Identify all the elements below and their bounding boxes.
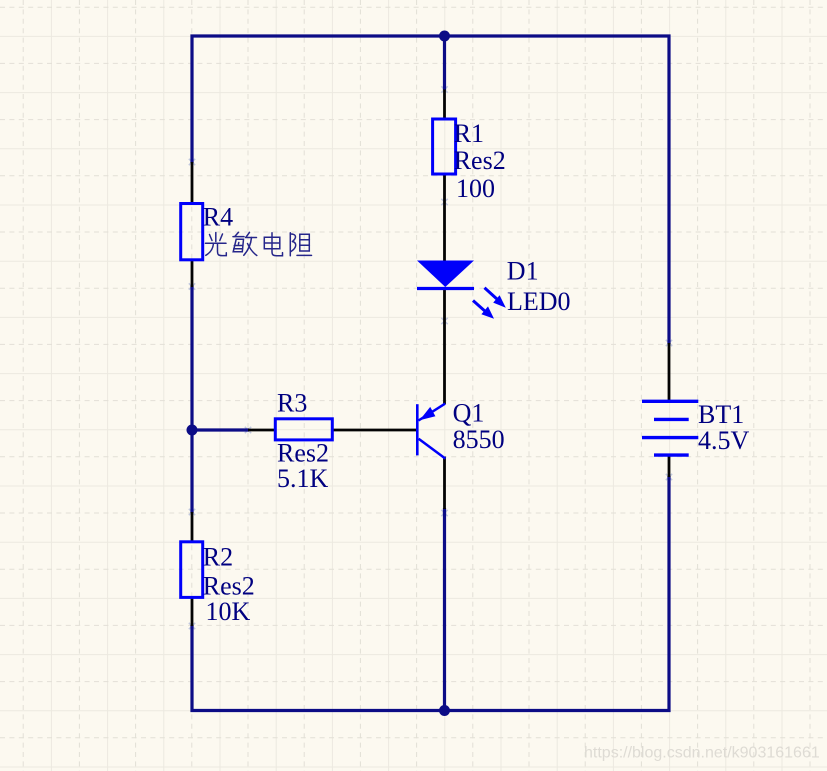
svg-text:R3: R3 <box>277 389 307 418</box>
pin R1.1 <box>443 90 446 121</box>
wire <box>192 428 249 431</box>
node: bottom junction <box>439 705 450 716</box>
pin end marker <box>189 509 195 515</box>
node: base divider junction <box>187 425 198 436</box>
pin end marker <box>441 510 447 516</box>
pin BT1.2 <box>668 455 671 478</box>
pin end marker <box>441 318 447 324</box>
diode D1 cathode bar <box>417 287 474 290</box>
wire <box>192 36 669 344</box>
svg-text:D1: D1 <box>507 257 539 286</box>
wire <box>190 286 193 514</box>
svg-text:BT1: BT1 <box>698 400 744 429</box>
resistor R4 body (photoresistor) <box>181 204 203 260</box>
svg-text:R4: R4 <box>203 203 233 232</box>
wire <box>443 508 446 711</box>
pin end marker <box>441 199 447 205</box>
transistor Q1 collector <box>419 439 446 459</box>
LED emission arrow 2 <box>473 301 494 319</box>
pin end marker <box>189 623 195 629</box>
wire <box>192 476 669 711</box>
pin R3.1 <box>248 429 276 432</box>
pin end marker <box>189 283 195 289</box>
resistor R2 body <box>181 542 203 598</box>
battery BT1 plate short 1 <box>654 418 689 421</box>
svg-text:10K: 10K <box>206 597 251 626</box>
pin R4.1 <box>191 162 194 205</box>
pin R1.2 / D1 anode pin <box>443 174 446 263</box>
pin R4.2 <box>191 259 194 287</box>
pin Q1 collector <box>443 457 446 510</box>
node: top junction <box>439 31 450 42</box>
wire <box>443 34 446 90</box>
transistor Q1 emitter with arrow <box>419 404 446 421</box>
svg-text:LED0: LED0 <box>507 287 571 316</box>
pin end marker <box>666 340 672 346</box>
pin end marker <box>245 427 251 433</box>
svg-text:8550: 8550 <box>453 425 505 454</box>
pin R2.2 <box>191 597 194 627</box>
svg-text:5.1K: 5.1K <box>277 464 329 493</box>
pin R3.2 / Q1 base pin <box>332 429 417 432</box>
svg-text:Res2: Res2 <box>454 146 506 175</box>
battery BT1 plate short 2 <box>654 453 689 456</box>
battery BT1 plate long 2 <box>642 436 698 439</box>
LED emission arrow 1 <box>485 288 506 308</box>
svg-text:R2: R2 <box>203 543 233 572</box>
battery BT1 plate long 1 <box>642 400 698 403</box>
pin D1 cathode / Q1 emitter pin <box>443 288 446 405</box>
svg-text:4.5V: 4.5V <box>698 426 750 455</box>
transistor Q1 base bar <box>416 404 419 455</box>
label R4 comment (photoresistor Chinese text) <box>206 232 312 256</box>
resistor R1 body <box>433 119 456 174</box>
svg-text:Q1: Q1 <box>453 398 485 427</box>
svg-text:R1: R1 <box>454 119 484 148</box>
svg-text:https://blog.csdn.net/k9031616: https://blog.csdn.net/k903161661 <box>584 744 820 761</box>
pin R2.1 <box>191 512 194 543</box>
resistor R3 body <box>275 419 332 440</box>
svg-text:100: 100 <box>456 174 495 203</box>
pin BT1.1 <box>668 343 671 402</box>
diode D1 triangle (anode) <box>417 261 474 288</box>
pin end marker <box>441 86 447 92</box>
pin end marker <box>189 159 195 165</box>
pin end marker <box>666 474 672 480</box>
